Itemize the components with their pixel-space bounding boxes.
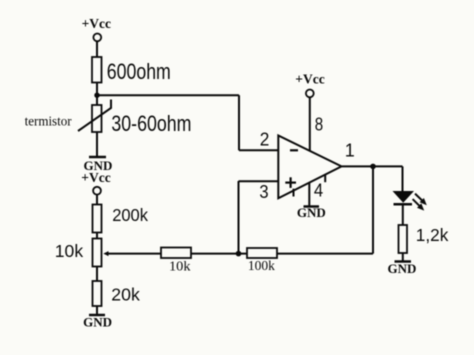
resistor 100k (247, 248, 277, 258)
resistor 20k (93, 281, 102, 306)
ground bar (bottom left) (89, 314, 105, 317)
svg-text:30-60ohm: 30-60ohm (111, 111, 191, 136)
wire pin 8 (309, 97, 311, 150)
wire 10k to node (191, 253, 247, 255)
svg-text:1: 1 (345, 141, 355, 161)
feedback wire up (372, 166, 374, 253)
svg-text:200k: 200k (112, 205, 148, 225)
op-amp U1 (278, 136, 341, 199)
svg-text:20k: 20k (111, 285, 140, 305)
junction node (600ohm/thermistor) (94, 93, 99, 98)
wire Vcc to R 600ohm (96, 42, 98, 58)
resistor 600ohm (92, 57, 102, 83)
wiper arrowhead (103, 251, 108, 256)
potentiometer 10k body (93, 239, 102, 267)
feedback wire right (277, 253, 373, 255)
wire LED to resistor (402, 206, 404, 226)
resistor 10k horizontal (161, 248, 191, 259)
wire pot to 20k (96, 267, 98, 282)
resistor 200k (93, 205, 102, 233)
LED arrow 2 head (417, 203, 424, 210)
svg-text:10k: 10k (55, 241, 84, 261)
svg-text:600ohm: 600ohm (107, 59, 171, 84)
op-amp pin stub lower right (324, 174, 326, 182)
LED arrow 2 shaft (413, 199, 420, 206)
wire node to right (97, 94, 239, 96)
wire pin 4 (308, 183, 310, 207)
ground bar (pin 4) (304, 205, 320, 208)
svg-text:4: 4 (314, 180, 323, 200)
output wire (342, 165, 403, 167)
wire 600ohm to thermistor (96, 83, 98, 106)
LED cathode bar (394, 203, 413, 206)
svg-text:termistor: termistor (25, 114, 72, 129)
LED arrow 1 head (420, 198, 427, 205)
svg-text:8: 8 (315, 114, 323, 134)
thermistor diagonal (78, 100, 111, 132)
svg-text:+Vcc: +Vcc (81, 170, 110, 185)
svg-text:10k: 10k (169, 258, 191, 273)
svg-text:+Vcc: +Vcc (82, 16, 111, 31)
thermistor body (92, 105, 102, 132)
wire Vcc to 200k (96, 195, 98, 205)
svg-text:2: 2 (260, 129, 270, 149)
ground bar (thermistor) (89, 156, 106, 159)
wire down to pin2 level (238, 95, 240, 150)
svg-text:+Vcc: +Vcc (295, 71, 324, 86)
LED arrow 1 shaft (415, 194, 422, 201)
resistor 1,2k (399, 225, 408, 253)
wire resistor to ground (402, 253, 404, 262)
wire node up to pin3 (238, 181, 240, 254)
wire into pin 3 (239, 180, 279, 182)
op-amp minus sign (290, 149, 298, 151)
junction node (pin3/feedback) (236, 251, 242, 257)
LED triangle (393, 191, 415, 203)
wire down to LED (402, 166, 404, 191)
ground bar (bottom right) (395, 260, 412, 263)
op-amp pin stub lower left (293, 189, 295, 197)
svg-text:GND: GND (388, 261, 417, 276)
wiper arrow line (108, 253, 162, 255)
wire 200k to pot (96, 233, 98, 239)
svg-text:1,2k: 1,2k (416, 225, 449, 245)
svg-text:GND: GND (297, 205, 326, 220)
+Vcc terminal divider (93, 187, 101, 195)
svg-text:3: 3 (259, 182, 268, 202)
+Vcc terminal top-left (93, 34, 101, 42)
+Vcc terminal op-amp (306, 90, 314, 98)
op-amp plus sign (285, 182, 296, 184)
svg-text:100k: 100k (248, 258, 275, 273)
junction node (output) (370, 164, 376, 170)
wire into pin 2 (239, 149, 279, 151)
svg-text:GND: GND (83, 315, 112, 330)
wire 20k to ground (96, 306, 98, 315)
wire thermistor to ground (96, 132, 98, 157)
